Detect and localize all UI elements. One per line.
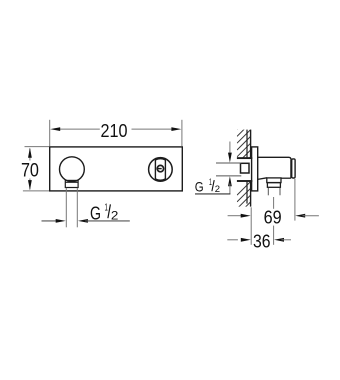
wall opening bottom edge	[237, 180, 252, 182]
svg-text:2: 2	[111, 210, 119, 222]
right knob top flat arc	[155, 158, 165, 159]
side G1/2 extension lines	[216, 162, 241, 164]
outlet body bottom left chamfer	[258, 178, 267, 180]
right knob center screw	[157, 165, 163, 171]
svg-text:70: 70	[21, 161, 39, 182]
svg-text:210: 210	[101, 121, 128, 141]
outlet stub below nut	[267, 188, 269, 195]
right knob flat chord right	[164, 159, 166, 180]
svg-text:69: 69	[264, 206, 282, 227]
wall hatching	[237, 116, 251, 170]
dim 210 extension line left	[49, 120, 51, 146]
svg-text:G: G	[90, 203, 101, 223]
svg-text:2: 2	[215, 184, 220, 195]
dim 210 extension line right	[181, 120, 183, 146]
dim 69 left ext (wall face)	[250, 207, 252, 245]
pipe stub in wall	[241, 163, 250, 173]
outlet body top	[258, 157, 291, 159]
svg-text:1: 1	[209, 177, 212, 187]
front G1/2 extension lines	[65, 188, 67, 228]
outlet body bottom right	[281, 177, 291, 179]
dim 69 line + arrows	[228, 215, 244, 217]
dim 70 line + arrows	[29, 149, 31, 161]
outlet body right edge	[290, 159, 292, 178]
wall face line	[250, 130, 252, 158]
front G1/2 dim line + arrows	[42, 220, 59, 222]
dim 70 extension line bottom	[23, 190, 49, 192]
dim 36 center ext (outlet axis)	[273, 197, 275, 209]
side G1/2 leader underline	[195, 193, 230, 195]
right knob bottom flat arc	[155, 179, 165, 180]
end cap	[292, 159, 295, 178]
svg-text:1: 1	[105, 202, 108, 214]
right knob flat chord left	[154, 159, 156, 180]
dim 69 right ext (cap edge)	[294, 179, 296, 221]
plate (side view)	[252, 147, 258, 191]
fitting under left knob	[65, 180, 78, 187]
svg-text:G: G	[195, 178, 204, 194]
dim 70 extension line top	[25, 146, 50, 148]
svg-text:36: 36	[253, 231, 271, 252]
wall back line	[246, 130, 248, 158]
hose nut upper	[267, 178, 281, 183]
left knob circle	[60, 157, 85, 182]
side G1/2 dim line + arrows	[229, 142, 231, 156]
dim 210 line + arrows	[58, 128, 100, 130]
hose nut lower	[267, 183, 280, 188]
plate (front view 210x70)	[50, 147, 183, 191]
wall opening top edge	[237, 157, 252, 159]
dim 36 line + arrows	[227, 239, 238, 241]
right knob outer circle	[149, 158, 173, 182]
